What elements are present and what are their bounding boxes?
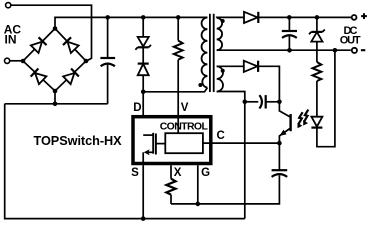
svg-text:C: C (217, 130, 225, 142)
svg-text:D: D (133, 102, 141, 114)
svg-text:TOPSwitch-HX: TOPSwitch-HX (34, 134, 123, 148)
svg-text:G: G (201, 167, 210, 179)
svg-text:X: X (174, 167, 182, 179)
svg-text:OUT: OUT (340, 35, 361, 47)
svg-text:CONTROL: CONTROL (160, 120, 209, 132)
svg-text:S: S (131, 167, 139, 179)
svg-text:IN: IN (5, 33, 17, 47)
svg-text:V: V (181, 102, 189, 114)
